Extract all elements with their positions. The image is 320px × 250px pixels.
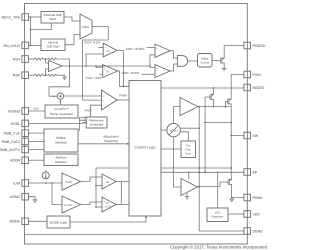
node feedback join (69, 65, 71, 67)
ground PGOOD fet (222, 68, 227, 71)
pin ILIM (13, 180, 28, 187)
svg-text:PMB_CLK: PMB_CLK (4, 132, 21, 136)
wire ADDR to address detector (29, 159, 45, 161)
svg-text:DGND: DGND (253, 229, 264, 233)
wire VO to comp B plus (150, 66, 155, 68)
wire bottom bus (25, 233, 244, 235)
svg-text:OCP: OCP (105, 206, 111, 209)
wire VO up to UV minus (86, 54, 103, 66)
svg-text:RSP: RSP (13, 74, 21, 78)
svg-text:Adjustment: Adjustment (103, 134, 119, 138)
wire sense bus (95, 168, 97, 207)
wire PWM output to control logic (117, 99, 129, 101)
node VO to UV (85, 65, 87, 67)
block Ton One-Shot (181, 141, 196, 158)
wire HSEL to reference generator (29, 122, 87, 125)
svg-text:EN_UVLO: EN_UVLO (4, 44, 21, 48)
block Address Detector (44, 154, 78, 166)
node RSP (45, 74, 47, 76)
wire long vertical to DGND (198, 107, 200, 231)
wire gain amp to ZC (81, 177, 103, 182)
wire EN_UVLO to Internal Soft Start (29, 44, 42, 46)
pin SMB_ALRT# (0, 146, 29, 153)
svg-text:XCON: XCON (170, 129, 178, 132)
wire PGOOD fet drain to pin (224, 46, 244, 56)
svg-text:Margining: Margining (104, 139, 118, 143)
svg-text:x(-1/8): x(-1/8) (64, 204, 72, 207)
pin PMB_DATA (2, 138, 29, 145)
wire MUX output loop down to PWM input (83, 27, 109, 101)
pin PGOOD (244, 42, 266, 49)
wire low fet source to PGND (232, 187, 244, 198)
summer circle (57, 93, 63, 99)
pin VDD (244, 211, 260, 218)
wire ZC out to control (116, 181, 129, 183)
svg-text:Shot: Shot (185, 153, 191, 156)
transistor low-side fet (226, 177, 232, 187)
resistor RSN input (29, 58, 35, 60)
ground arrow PGND (231, 198, 233, 200)
wire SW sense to current comparators (96, 167, 231, 169)
block External Soft Start (41, 12, 64, 24)
svg-text:-: - (104, 75, 105, 78)
svg-text:SW: SW (253, 134, 259, 138)
svg-text:VREF -8.2%: VREF -8.2% (84, 40, 101, 44)
wire bus to OCP (96, 206, 102, 208)
node on TRK wire (30, 16, 32, 18)
svg-text:Control Logic: Control Logic (134, 146, 155, 150)
svg-text:PGOOD: PGOOD (253, 44, 267, 48)
pin EN_UVLO (4, 42, 29, 49)
ground at sense divider (62, 77, 67, 80)
wire control to XCON (161, 129, 167, 131)
driver low-side (181, 179, 198, 196)
pin RSN (13, 56, 29, 63)
wire PVIN line (231, 75, 244, 97)
wire RSN node to minus input (45, 59, 48, 63)
wire PGOOD fet source to ground (223, 66, 225, 69)
comparator OV (103, 65, 118, 78)
driver high-side (180, 98, 198, 116)
svg-text:+: + (104, 177, 106, 180)
svg-text:ZC: ZC (106, 181, 110, 184)
resistor RSP to ground (48, 74, 57, 76)
wire RSP node to plus input (45, 69, 48, 75)
svg-text:+: + (156, 68, 158, 71)
wire OCP out to control (116, 204, 129, 206)
node stub on long vertical (198, 127, 200, 129)
wire BP to low driver supply (188, 172, 190, 179)
pin HSEL (11, 120, 29, 127)
gate AND (177, 56, 187, 67)
wire join vertical (120, 182, 122, 205)
svg-text:SMB_ALRT#: SMB_ALRT# (0, 148, 20, 152)
wire high-side source to SW (231, 107, 244, 178)
pin VOSNS (8, 108, 29, 115)
wire mode logic to control (70, 216, 146, 222)
pin PVIN (244, 71, 261, 78)
wire comp A to AND (170, 51, 177, 58)
svg-text:ILIM: ILIM (13, 181, 20, 185)
svg-text:+: + (103, 100, 105, 103)
pin DGND (244, 228, 263, 235)
svg-text:UV: UV (106, 50, 110, 53)
circle XCON (167, 123, 180, 136)
wire summer to PWM (64, 95, 102, 97)
svg-text:OV: OV (106, 70, 110, 73)
wire ILIM branch to negative gain amp (52, 183, 62, 205)
svg-text:One-: One- (185, 149, 191, 152)
svg-text:PGND: PGND (253, 196, 264, 200)
svg-text:Interface: Interface (55, 141, 67, 145)
svg-text:-: - (103, 105, 104, 108)
wire margining to control logic (78, 143, 129, 145)
svg-text:RESV_TRK: RESV_TRK (2, 15, 21, 19)
wire BP to LDO (217, 172, 219, 208)
wire bootstrap gate vertical (204, 97, 206, 172)
comparator UV (103, 43, 117, 57)
wire RESV_TRK to External Soft Start (29, 16, 42, 18)
wire delay to PGOOD fet gate (212, 60, 218, 62)
svg-text:D-CAP3™: D-CAP3™ (54, 107, 68, 111)
block D-CAP3 Ramp Generator (45, 105, 78, 118)
pin MODE (10, 218, 29, 225)
block Reference Generator (86, 117, 107, 128)
svg-text:LDO: LDO (215, 212, 221, 215)
node VO tap for window comps (149, 65, 151, 67)
svg-text:VREF +25%: VREF +25% (86, 76, 103, 80)
wire PMB_DATA (29, 140, 45, 142)
wire to comp B minus (142, 73, 156, 75)
block Control Logic (129, 81, 161, 217)
wire SMB_ALRT# (29, 149, 45, 151)
wire comp B to AND (170, 64, 177, 71)
svg-text:Start: Start (49, 17, 56, 21)
svg-text:Generator: Generator (90, 123, 104, 127)
svg-text:BP: BP (253, 170, 258, 174)
svg-text:HSEL: HSEL (11, 122, 20, 126)
wire AND to delay control (188, 60, 198, 62)
comparator window A (155, 44, 170, 57)
wire DGND line (199, 230, 244, 232)
wire sw reference line (205, 121, 231, 123)
block Internal Soft Start (41, 39, 65, 51)
resistor RSP input (29, 74, 35, 76)
svg-text:VREF +8/16%: VREF +8/16% (126, 47, 145, 51)
pin BP (244, 169, 258, 176)
wire summer down to ramp gen (59, 99, 61, 105)
svg-text:VDD: VDD (253, 212, 261, 216)
pin AGND (10, 193, 29, 200)
comparator window B (155, 65, 170, 78)
pin PGND (244, 194, 263, 201)
comparator ZC (102, 174, 116, 189)
wire XCON right stubs (180, 128, 199, 141)
svg-text:+: + (156, 47, 158, 50)
pin ADDR (10, 157, 28, 164)
transistor PGOOD pulldown (218, 56, 224, 66)
wire to window comp A plus (147, 46, 156, 48)
block MODE Logic (47, 216, 70, 228)
node RSN (45, 58, 47, 60)
node UV OV join (123, 86, 125, 88)
svg-text:T​on: T​on (186, 145, 191, 148)
wire LDO to VDD (228, 213, 244, 215)
wire OV output down (118, 71, 129, 86)
svg-text:Soft Start: Soft Start (47, 45, 60, 49)
ground low driver (186, 194, 188, 197)
svg-text:-: - (104, 209, 105, 212)
wire ILIM line (29, 182, 63, 184)
svg-text:MUX: MUX (82, 25, 89, 29)
svg-text:+: + (103, 95, 105, 98)
node boost fet drain (213, 87, 215, 89)
op-amp remote sense (49, 61, 63, 72)
svg-text:-: - (50, 62, 51, 65)
transistor bootstrap switch (208, 92, 214, 102)
node SW junction (230, 135, 232, 137)
comparator LS OCP (102, 197, 116, 212)
svg-text:Copyright © 2017, Texas Instru: Copyright © 2017, Texas Instruments Inco… (170, 244, 268, 249)
svg-text:MODE Logic: MODE Logic (50, 221, 68, 225)
wire TRK node down to EN wire (30, 17, 32, 45)
svg-text:Ramp Generator: Ramp Generator (50, 112, 73, 116)
svg-text:BOOST: BOOST (253, 86, 266, 90)
node on EN wire (30, 45, 32, 47)
svg-text:-: - (104, 186, 105, 189)
svg-text:Detector: Detector (55, 160, 67, 164)
wire control to one-shot (161, 148, 181, 150)
svg-text:x(1/8): x(1/8) (65, 181, 72, 184)
wire driver out rail (198, 106, 231, 108)
svg-text:-: - (157, 55, 158, 58)
svg-text:-: - (157, 75, 158, 78)
wire amp output main VO line (62, 65, 150, 67)
svg-text:RSN: RSN (13, 57, 21, 61)
wire OV minus input (100, 73, 103, 75)
wire UV output down (117, 50, 124, 86)
mux MUX (80, 14, 92, 39)
block Delay Control (198, 54, 213, 68)
svg-text:PMBus: PMBus (56, 136, 66, 140)
block PMBus Interface (44, 129, 78, 152)
wire high-side gate feed (224, 102, 226, 107)
wire bus to ZC minus (96, 185, 102, 187)
pin RSP (13, 72, 29, 79)
outer IC boundary (25, 4, 248, 245)
wire BP rail (161, 171, 244, 173)
node VO to OV (95, 65, 97, 67)
svg-text:Delay: Delay (201, 57, 209, 60)
svg-text:PVIN: PVIN (253, 73, 262, 77)
svg-text:PWM: PWM (119, 94, 127, 98)
block LDO Regulator (207, 208, 228, 222)
node before summer (53, 95, 55, 97)
wire UV plus input (99, 46, 104, 48)
wire reference to PWM minus (91, 105, 102, 117)
current source (42, 172, 49, 179)
wire VO to OV plus (96, 66, 103, 67)
pin PMB_CLK (4, 130, 29, 137)
svg-text:VREF -8/16%: VREF -8/16% (122, 71, 140, 75)
wire low driver out to fet gate (198, 182, 226, 187)
svg-text:ADDR: ADDR (10, 159, 20, 163)
wire bootstrap drain up (213, 88, 215, 92)
amp x(-1/8) (62, 196, 81, 213)
wire bootstrap source down (213, 102, 215, 107)
svg-text:MODE: MODE (10, 220, 21, 224)
svg-text:Regulator: Regulator (212, 216, 224, 219)
svg-text:VOSNS: VOSNS (8, 109, 21, 113)
svg-text:VREF: VREF (85, 108, 93, 112)
svg-text:-: - (105, 54, 106, 57)
wire XCON top to driver input (174, 107, 180, 124)
wire ESS bottom tap (31, 23, 52, 30)
wire PMB_CLK (29, 132, 45, 134)
pin BOOST (244, 84, 266, 91)
wire neg amp to OCP (81, 202, 103, 205)
resistor feedback (48, 58, 57, 60)
ground AGND (29, 197, 36, 200)
svg-text:tON: tON (34, 107, 39, 111)
svg-text:LS: LS (106, 202, 109, 205)
wire VO to comp A minus (150, 55, 155, 66)
wire ISS out to MUX (65, 35, 80, 45)
svg-text:PMB_DATA: PMB_DATA (2, 140, 21, 144)
amp x(1/8) (62, 173, 81, 190)
pin SW (244, 132, 259, 139)
wire PMBus to reference generator (80, 118, 87, 132)
wire VOSNS to ramp generator (29, 110, 46, 112)
svg-text:AGND: AGND (10, 195, 21, 199)
wire VO loop down to summer (49, 66, 69, 96)
wire MODE to mode logic (29, 220, 48, 222)
pin RESV_TRK (2, 14, 29, 21)
comparator PWM (102, 90, 118, 110)
wire XCON bottom to low driver (174, 137, 181, 187)
transistor high-side fet (225, 97, 231, 107)
svg-text:Control: Control (200, 61, 209, 64)
wire ESS out to MUX (64, 17, 80, 21)
wire BOOST line (161, 87, 244, 89)
